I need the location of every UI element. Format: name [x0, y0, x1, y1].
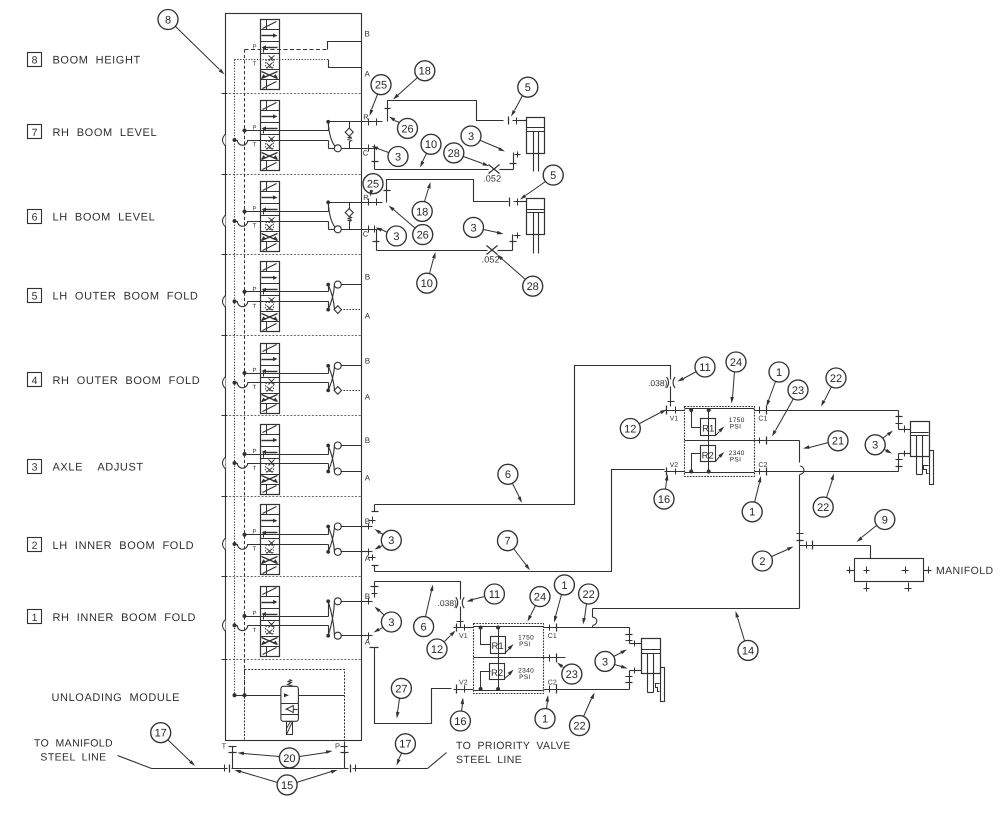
callout 12 — [620, 410, 666, 439]
svg-text:R1: R1 — [702, 424, 714, 435]
svg-text:V1: V1 — [670, 416, 679, 423]
unloading module piping — [233, 693, 345, 697]
svg-text:A: A — [365, 312, 371, 321]
svg-text:1: 1 — [776, 367, 782, 379]
svg-text:BOOM HEIGHT: BOOM HEIGHT — [53, 55, 141, 67]
callout 2 — [752, 547, 793, 572]
callout 23 — [557, 663, 582, 685]
svg-text:3: 3 — [393, 231, 399, 243]
section 3 work ports B/A with double check — [326, 436, 370, 483]
svg-text:TO PRIORITY VALVE: TO PRIORITY VALVE — [456, 740, 571, 752]
valve section 7 P/T feed lines — [233, 129, 329, 146]
svg-text:T: T — [253, 627, 257, 634]
valve section 8 P/T feed lines — [235, 42, 362, 68]
solenoid valve V8 — [252, 20, 279, 90]
wire 18 line section 7 — [385, 101, 527, 125]
callout 7 — [498, 531, 531, 571]
svg-text:18: 18 — [419, 66, 431, 78]
solenoid valve V2 — [252, 505, 279, 575]
svg-text:P: P — [252, 610, 256, 617]
svg-text:9: 9 — [882, 514, 888, 526]
svg-text:10: 10 — [425, 139, 437, 151]
callout 22 — [570, 693, 595, 736]
svg-text:22: 22 — [830, 373, 842, 385]
svg-text:1: 1 — [749, 507, 755, 519]
callout 22 — [813, 474, 834, 518]
svg-text:A: A — [365, 70, 371, 79]
callout 6 — [414, 585, 434, 637]
callout 11 — [678, 357, 716, 382]
svg-text:1: 1 — [542, 714, 548, 726]
callout 20 — [238, 748, 333, 768]
callout 1 — [554, 575, 574, 623]
callout 5 — [511, 77, 538, 116]
svg-text:12: 12 — [624, 423, 636, 435]
svg-text:2: 2 — [32, 540, 38, 552]
svg-text:8: 8 — [32, 55, 38, 67]
svg-text:B: B — [365, 436, 370, 445]
valve section 6 P/T feed lines — [233, 210, 329, 227]
svg-text:A: A — [365, 554, 371, 563]
svg-text:C1: C1 — [548, 633, 557, 640]
section label 4 RH OUTER BOOM FOLD — [28, 373, 201, 388]
section 4 work ports B/A with double check — [326, 356, 370, 401]
callout 28 — [497, 255, 543, 297]
unloading module label — [52, 692, 181, 704]
callout 25 — [370, 75, 392, 116]
svg-text:24: 24 — [534, 592, 546, 604]
svg-text:1: 1 — [561, 580, 567, 592]
svg-text:RH BOOM LEVEL: RH BOOM LEVEL — [53, 127, 158, 139]
section 2 external port fittings — [362, 524, 373, 556]
svg-text:P: P — [252, 206, 256, 213]
section label 5 LH OUTER BOOM FOLD — [28, 289, 199, 303]
callout 21 — [803, 431, 848, 451]
callout 3 — [372, 146, 409, 167]
svg-text:B: B — [365, 592, 370, 601]
svg-text:A: A — [365, 638, 371, 647]
svg-text:22: 22 — [573, 721, 585, 733]
boom cylinder right — [911, 422, 934, 485]
callout 3 — [461, 126, 505, 152]
orifice .038 lower — [438, 597, 465, 608]
svg-text:21: 21 — [832, 436, 844, 448]
svg-text:16: 16 — [658, 494, 670, 506]
svg-text:12: 12 — [431, 644, 443, 656]
port B label section 8 — [365, 30, 370, 39]
svg-text:11: 11 — [699, 362, 710, 374]
manifold block — [847, 559, 932, 592]
svg-text:5: 5 — [32, 291, 38, 303]
svg-text:A: A — [365, 474, 371, 483]
manifold label — [936, 565, 993, 577]
svg-text:LH BOOM LEVEL: LH BOOM LEVEL — [53, 212, 156, 224]
svg-text:P: P — [335, 742, 340, 751]
svg-text:.052: .052 — [482, 255, 500, 265]
callout 18 — [393, 61, 435, 100]
svg-text:STEEL LINE: STEEL LINE — [40, 752, 106, 764]
svg-text:2: 2 — [759, 556, 765, 568]
callout 12 — [427, 631, 456, 660]
wire 18 line section 6 — [384, 180, 527, 207]
callout 22 — [579, 584, 599, 625]
svg-text:6: 6 — [32, 212, 38, 224]
svg-text:11: 11 — [489, 589, 500, 601]
svg-text:T: T — [253, 61, 257, 68]
boom cylinder section 7 — [527, 118, 545, 172]
svg-text:3: 3 — [32, 462, 38, 474]
callout 8 — [158, 10, 225, 75]
svg-text:T: T — [253, 223, 257, 230]
svg-text:RH INNER BOOM FOLD: RH INNER BOOM FOLD — [53, 612, 197, 624]
svg-text:A: A — [365, 392, 371, 401]
svg-text:4: 4 — [32, 375, 38, 387]
wire 22 upper (C1 to cylinder) — [777, 411, 911, 433]
section label 2 LH INNER BOOM FOLD — [28, 538, 195, 553]
svg-text:T: T — [222, 742, 227, 751]
svg-text:3: 3 — [470, 222, 476, 234]
svg-text:R: R — [363, 112, 369, 121]
valve section 1 P/T feed lines — [233, 614, 329, 631]
T port stub — [222, 742, 237, 769]
solenoid valve V7 — [252, 101, 279, 171]
svg-text:PSI: PSI — [519, 674, 531, 681]
callout 3 — [376, 226, 407, 246]
svg-text:18: 18 — [416, 206, 428, 218]
left edge section seals — [223, 134, 226, 631]
svg-text:3: 3 — [872, 440, 878, 452]
svg-text:22: 22 — [582, 589, 594, 601]
callout 6 — [498, 464, 522, 503]
svg-text:T: T — [253, 142, 257, 149]
svg-text:T: T — [253, 303, 257, 310]
svg-text:P: P — [252, 367, 256, 374]
bottom line center — [232, 768, 349, 770]
svg-text:R: R — [363, 193, 369, 202]
svg-text:PSI: PSI — [519, 641, 531, 648]
relief module U2 (R1 1750 PSI / R2 2340 PSI) — [454, 624, 566, 694]
solenoid valve V1 — [252, 587, 279, 657]
svg-text:7: 7 — [32, 127, 38, 139]
section 7 pilot-operated check + relief — [326, 120, 361, 152]
callout 15 — [235, 770, 338, 795]
svg-text:C: C — [363, 148, 369, 157]
steel line to priority valve — [351, 753, 447, 773]
svg-text:P: P — [252, 529, 256, 536]
svg-text:7: 7 — [504, 536, 510, 548]
svg-text:C1: C1 — [758, 416, 767, 423]
valve section 3 P/T feed lines — [233, 452, 329, 468]
svg-text:3: 3 — [388, 535, 394, 547]
section label 1 RH INNER BOOM FOLD — [28, 610, 197, 624]
svg-text:LH INNER BOOM FOLD: LH INNER BOOM FOLD — [53, 540, 195, 552]
section 1 external port fittings — [362, 598, 373, 640]
solenoid valve V5 — [252, 262, 279, 332]
callout 5 — [520, 165, 563, 199]
svg-text:17: 17 — [399, 739, 411, 751]
valve section 4 P/T feed lines — [233, 371, 329, 388]
callout 3 — [595, 650, 628, 672]
callout 28 — [444, 143, 489, 166]
orifice .052 section 7 — [483, 165, 501, 184]
wire 9 (junction to manifold) — [800, 541, 871, 559]
svg-text:3: 3 — [468, 131, 474, 143]
svg-text:.038): .038) — [648, 378, 668, 388]
callout 10 — [420, 134, 441, 167]
callout 1 — [767, 362, 790, 407]
solenoid valve V4 — [252, 344, 279, 414]
svg-text:25: 25 — [367, 179, 379, 191]
svg-text:RH OUTER BOOM FOLD: RH OUTER BOOM FOLD — [53, 375, 201, 387]
section 1 work ports B/A with double check — [326, 592, 370, 647]
svg-text:26: 26 — [401, 123, 413, 135]
callout 17 — [151, 723, 195, 766]
wire 10 line section 6 — [373, 230, 521, 251]
svg-text:MANIFOLD: MANIFOLD — [936, 565, 993, 577]
boom cylinder section 6 — [527, 199, 545, 254]
svg-text:R2: R2 — [491, 668, 503, 679]
svg-text:24: 24 — [730, 357, 742, 369]
callout 17 — [395, 734, 415, 766]
svg-text:3: 3 — [602, 656, 608, 668]
wire 27 — [370, 648, 452, 724]
to priority valve steel line label — [456, 740, 571, 766]
callout 1 — [742, 476, 762, 522]
section label 7 RH BOOM LEVEL — [28, 125, 158, 139]
svg-text:P: P — [252, 286, 256, 293]
callout 16 — [450, 698, 470, 732]
svg-text:23: 23 — [792, 385, 804, 397]
boom cylinder lower — [642, 639, 665, 702]
wire 7 — [369, 470, 665, 572]
section divider lines — [222, 94, 362, 660]
svg-text:P: P — [252, 125, 256, 132]
svg-text:AXLE ADJUST: AXLE ADJUST — [53, 462, 144, 474]
steel line to manifold — [118, 756, 230, 773]
valve section 5 P/T feed lines — [233, 290, 329, 307]
wire C2 lower module — [547, 668, 642, 690]
P port stub — [335, 742, 349, 769]
section 6 R/C work ports — [362, 193, 383, 239]
callout 22 — [821, 368, 846, 407]
svg-text:.052: .052 — [483, 174, 501, 184]
solenoid valve V6 — [252, 182, 279, 252]
svg-text:P: P — [252, 44, 256, 51]
svg-text:T: T — [253, 384, 257, 391]
orifice .038 upper — [648, 377, 675, 388]
wire 10 line section 7 — [372, 149, 521, 170]
svg-text:10: 10 — [421, 278, 433, 290]
svg-text:3: 3 — [395, 151, 401, 163]
callout 18 — [412, 182, 432, 221]
svg-text:14: 14 — [742, 645, 754, 657]
svg-text:B: B — [365, 30, 370, 39]
svg-text:17: 17 — [155, 728, 167, 740]
svg-text:6: 6 — [421, 622, 427, 634]
callout 26 — [389, 117, 418, 139]
unloading valve — [281, 680, 299, 735]
callout 10 — [417, 252, 437, 293]
callout 23 — [772, 380, 808, 437]
svg-text:3: 3 — [388, 617, 394, 629]
svg-text:.038): .038) — [438, 598, 458, 608]
svg-text:V2: V2 — [459, 680, 468, 687]
wire 6 — [369, 366, 675, 524]
valve section 2 P/T feed lines — [233, 533, 329, 550]
section label 6 LH BOOM LEVEL — [28, 210, 156, 224]
svg-text:B: B — [365, 356, 370, 365]
svg-text:PSI: PSI — [730, 424, 742, 431]
svg-text:C: C — [363, 229, 369, 238]
svg-text:28: 28 — [448, 148, 460, 160]
svg-text:P: P — [252, 448, 256, 455]
wire 14 — [593, 609, 800, 628]
callout 3 — [375, 529, 402, 550]
callout 16 — [654, 474, 674, 509]
svg-text:20: 20 — [283, 753, 295, 765]
wire to lower module V1 — [371, 582, 464, 628]
svg-text:6: 6 — [505, 469, 511, 481]
to manifold steel line label — [34, 738, 113, 764]
svg-text:1: 1 — [32, 612, 38, 624]
svg-text:8: 8 — [165, 14, 171, 26]
section label 8 BOOM HEIGHT — [28, 53, 141, 67]
orifice .052 section 6 — [482, 246, 500, 265]
svg-text:T: T — [253, 465, 257, 472]
wire 21 (mid port to junction) — [777, 441, 805, 609]
callout 24 — [726, 352, 746, 404]
svg-text:5: 5 — [550, 170, 556, 182]
svg-text:R1: R1 — [492, 641, 504, 652]
svg-text:V2: V2 — [670, 462, 679, 469]
svg-text:R2: R2 — [702, 451, 714, 462]
callout 14 — [736, 611, 759, 660]
callout 3 — [865, 431, 893, 455]
svg-text:UNLOADING MODULE: UNLOADING MODULE — [52, 692, 181, 704]
callout 26 — [389, 206, 433, 245]
svg-text:C2: C2 — [548, 680, 557, 687]
svg-text:16: 16 — [454, 716, 466, 728]
svg-text:25: 25 — [375, 80, 387, 92]
callout 27 — [391, 678, 411, 718]
wire 22 lower (C2 to cylinder) — [777, 451, 911, 472]
svg-text:T: T — [253, 546, 257, 553]
section 7 R/C work ports — [362, 112, 383, 157]
callout 11 — [467, 584, 505, 604]
svg-text:TO MANIFOLD: TO MANIFOLD — [34, 738, 113, 750]
section 5 work ports B/A with double check — [326, 273, 370, 321]
svg-text:28: 28 — [527, 281, 539, 293]
section 2 work ports B/A with double check — [326, 517, 370, 563]
section 6 pilot-operated check + relief — [326, 200, 361, 232]
P gallery bus — [244, 50, 246, 696]
section label 3 AXLE&#160;&#160;ADJUST — [28, 460, 144, 474]
callout 24 — [528, 587, 551, 622]
unloading module enclosure — [245, 670, 345, 741]
svg-text:23: 23 — [566, 669, 578, 681]
svg-text:22: 22 — [817, 502, 829, 514]
port A label section 8 — [365, 70, 371, 79]
valve stack enclosure — [226, 14, 362, 741]
callout 3 — [374, 607, 402, 633]
svg-text:LH OUTER BOOM FOLD: LH OUTER BOOM FOLD — [53, 291, 199, 303]
relief module U1 (R1 1750 PSI / R2 2340 PSI) — [665, 406, 777, 477]
svg-text:B: B — [365, 517, 370, 526]
svg-text:B: B — [365, 273, 370, 282]
callout 3 — [464, 217, 504, 237]
svg-text:15: 15 — [281, 780, 293, 792]
svg-text:27: 27 — [395, 683, 407, 695]
svg-text:STEEL LINE: STEEL LINE — [456, 754, 522, 766]
wire C1 lower module — [547, 628, 642, 647]
svg-text:26: 26 — [417, 230, 429, 242]
svg-text:C2: C2 — [758, 462, 767, 469]
svg-text:PSI: PSI — [730, 457, 742, 464]
solenoid valve V3 — [252, 425, 279, 495]
callout 25 — [363, 174, 383, 197]
svg-text:5: 5 — [525, 82, 531, 94]
T gallery bus — [234, 60, 236, 696]
svg-text:V1: V1 — [459, 633, 468, 640]
callout 1 — [535, 695, 555, 729]
callout 9 — [857, 510, 895, 543]
